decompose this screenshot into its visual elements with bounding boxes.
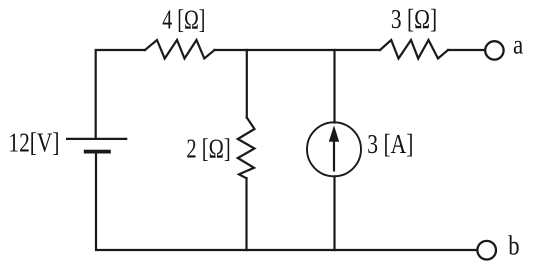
- resistor R3 2-ohm vertical zigzag: [238, 118, 255, 179]
- svg-text:b: b: [508, 232, 519, 261]
- wire left-top: battery plus plate up to top-left corner and to 4-ohm resistor: [96, 50, 145, 138]
- resistor R1 4-ohm zigzag: [145, 40, 215, 59]
- svg-text:a: a: [513, 31, 523, 60]
- wire node-source: top node down to current source: [333, 50, 335, 123]
- current source I1 circle: [307, 122, 361, 176]
- wire 2ohm-bottom: 2-ohm resistor down to bottom wire: [245, 178, 247, 250]
- svg-text:3 [Ω]: 3 [Ω]: [391, 5, 437, 35]
- battery V1 thin plus plate: [66, 138, 127, 140]
- battery V1 thick minus plate: [84, 150, 111, 154]
- wire top-right: 3-ohm resistor to terminal a: [448, 49, 484, 51]
- resistor R2 3-ohm zigzag: [380, 40, 448, 59]
- wire bottom: battery minus plate down, along bottom to terminal b: [96, 153, 476, 250]
- terminal a circle: [485, 41, 503, 59]
- svg-text:3 [A]: 3 [A]: [367, 130, 413, 160]
- wire top-middle: 4-ohm resistor to 3-ohm resistor: [215, 49, 381, 51]
- svg-text:4 [Ω]: 4 [Ω]: [162, 6, 205, 36]
- svg-text:2 [Ω]: 2 [Ω]: [186, 135, 230, 164]
- current source I1 arrow head: [329, 125, 339, 142]
- terminal b circle: [477, 241, 496, 260]
- current source I1 arrow shaft: [333, 139, 335, 172]
- wire node-2ohm: top node down to 2-ohm resistor: [246, 50, 248, 118]
- svg-text:12[V]: 12[V]: [8, 128, 59, 158]
- wire source-bottom: current source down to bottom wire: [333, 176, 335, 250]
